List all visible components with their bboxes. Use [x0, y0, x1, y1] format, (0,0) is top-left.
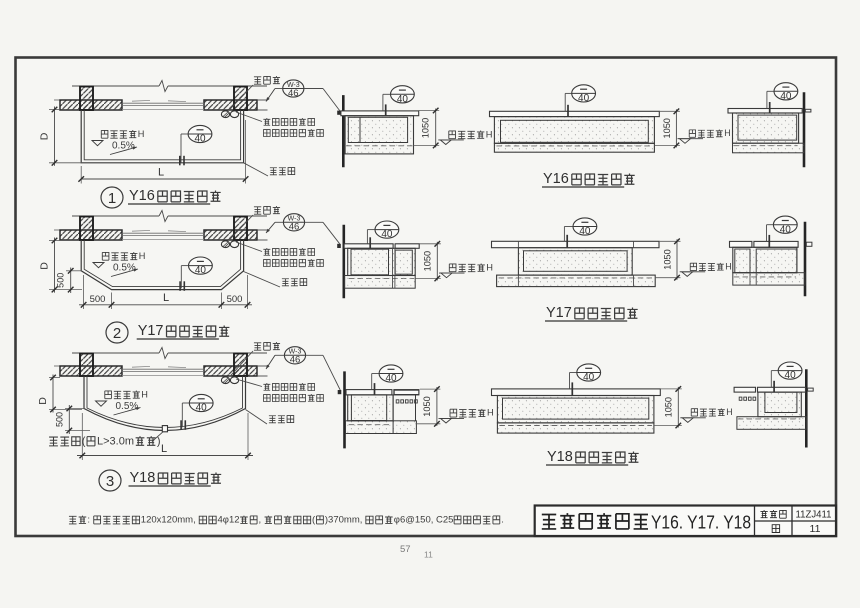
- label: embedded part (yumaijian): [254, 77, 261, 84]
- svg-text:40: 40: [381, 229, 393, 240]
- slab band extension: [733, 143, 805, 153]
- detail reference circle W-3/46: [283, 80, 304, 97]
- svg-text:D: D: [39, 132, 51, 140]
- leader from yumaijian to pier: [230, 85, 253, 109]
- slab band: [497, 423, 654, 433]
- svg-text:L>3.0m: L>3.0m: [97, 435, 134, 447]
- wall edge line: [805, 369, 808, 447]
- label: balcony floor H: [449, 131, 456, 139]
- svg-text:3: 3: [106, 473, 114, 490]
- leader from W-3 circle to side elevation embedded plate: [305, 221, 323, 223]
- label: exterior wall insulation method: [263, 248, 270, 255]
- label: exterior wall insulation method: [263, 118, 270, 125]
- slope arrow: [111, 269, 138, 277]
- svg-text:L: L: [158, 167, 164, 179]
- label: balcony floor H: [689, 130, 695, 137]
- dimension 1050 line: [675, 109, 677, 147]
- dimension D line: [54, 107, 56, 166]
- baluster dots: [396, 400, 399, 403]
- floor level marker: [680, 139, 691, 144]
- svg-text:40: 40: [578, 93, 590, 104]
- slab dashed line: [734, 276, 796, 278]
- svg-text:.: .: [501, 515, 504, 526]
- svg-text:11ZJ411: 11ZJ411: [796, 509, 832, 521]
- label: balcony floor H: [450, 409, 457, 417]
- leader to index circle 40: [181, 265, 188, 267]
- leader to structural column label: [244, 272, 280, 288]
- leader to index circle 40: [181, 133, 188, 135]
- index circle 40: [375, 221, 399, 238]
- circled number 2: [106, 322, 128, 343]
- svg-text:1050: 1050: [662, 249, 672, 269]
- slab band extension: [737, 417, 806, 430]
- label: balcony floor level H: [102, 252, 109, 260]
- label: balcony floor H: [691, 409, 697, 416]
- dimension 1050 extension lines: [660, 388, 682, 390]
- balcony door/window lines: [122, 368, 204, 370]
- leader to index circle 40: [564, 226, 573, 228]
- slab band: [497, 275, 656, 287]
- dimension D extension lines: [49, 240, 60, 242]
- svg-text:0.5%: 0.5%: [112, 141, 135, 152]
- dimension 1050 extension lines: [659, 240, 681, 242]
- svg-text:Y17: Y17: [138, 323, 164, 339]
- railing inner panel: [351, 395, 386, 421]
- index circle 40: [379, 365, 403, 382]
- railing body: [497, 396, 654, 423]
- dimension L (Y18): [81, 413, 83, 460]
- notes line: [69, 516, 77, 524]
- svg-text:Y16. Y17. Y18: Y16. Y17. Y18: [651, 512, 751, 533]
- leader + label: structural column (when L>3.0m): [152, 432, 163, 442]
- railing coping: [344, 244, 393, 249]
- leader from W-3 circle to wall end: [275, 354, 284, 356]
- dimension D line: [52, 375, 54, 413]
- slope symbol: [96, 401, 107, 406]
- svg-text:H: H: [138, 129, 145, 139]
- railing body: [733, 247, 797, 272]
- railing inner panel: [503, 398, 649, 419]
- slope symbol: [92, 141, 103, 146]
- label: structural column: [269, 416, 276, 423]
- slab band (Y18 side): [346, 421, 417, 434]
- label: structural column: [282, 279, 289, 286]
- svg-text:D: D: [37, 397, 49, 405]
- second coping segment: [394, 390, 419, 394]
- exterior wall right segment (hatched): [204, 100, 257, 110]
- index circle 40: [391, 86, 415, 103]
- index circle 40: [773, 216, 797, 233]
- svg-text:0.5%: 0.5%: [113, 263, 136, 274]
- label: embedded part (yumaijian): [254, 207, 261, 214]
- svg-text:Y18: Y18: [547, 449, 573, 465]
- embedded part circles: [221, 111, 229, 118]
- balcony door/window lines: [122, 102, 204, 104]
- wall pier right (hatched column): [234, 87, 247, 111]
- railing inner panel: [738, 115, 797, 140]
- leader from W-3 circle to side elevation embedded plate: [306, 354, 323, 356]
- index circle 40: [577, 364, 601, 381]
- wall pier left (hatched column): [80, 354, 93, 377]
- railing inner panel: [351, 249, 389, 275]
- label: balcony floor level H: [105, 391, 112, 399]
- svg-text:1050: 1050: [423, 251, 433, 271]
- Y16 balcony slab outline: [81, 110, 243, 163]
- leader to index circle 40: [182, 402, 189, 404]
- slab band: [494, 143, 654, 152]
- svg-text:40: 40: [385, 373, 397, 384]
- svg-text:4φ12: 4φ12: [218, 515, 240, 526]
- dimension 500 left (Y17): [66, 270, 82, 272]
- railing body: [345, 116, 413, 154]
- balcony door/window lines: [122, 232, 204, 234]
- fold lines: [517, 241, 519, 247]
- svg-text:1050: 1050: [664, 397, 674, 417]
- svg-text:L: L: [163, 292, 169, 304]
- railing body: [733, 113, 799, 143]
- leader from embedded circles to insulation note: [236, 112, 262, 122]
- svg-text:500: 500: [56, 273, 66, 288]
- leader to index circle 40: [372, 373, 379, 375]
- svg-text:40: 40: [194, 134, 206, 145]
- svg-text:Y16: Y16: [543, 171, 569, 187]
- svg-text:46: 46: [289, 222, 300, 233]
- svg-text:1: 1: [108, 190, 116, 207]
- label: balcony floor H: [690, 263, 696, 270]
- slab dashed line: [349, 424, 392, 426]
- svg-text:40: 40: [785, 370, 797, 381]
- svg-text:1050: 1050: [421, 118, 431, 138]
- right strip of curved rail: [392, 395, 394, 434]
- leader to index circle 40: [565, 92, 572, 94]
- svg-text:40: 40: [196, 403, 208, 414]
- svg-text:D: D: [39, 262, 51, 270]
- label: balcony floor H: [449, 264, 456, 272]
- index circle 40: [188, 125, 212, 142]
- svg-text:57: 57: [400, 544, 411, 555]
- dimension D extension lines: [49, 377, 60, 379]
- floor level marker: [682, 272, 693, 277]
- exterior wall right segment (hatched): [204, 230, 257, 240]
- svg-text:40: 40: [780, 224, 792, 235]
- svg-text:40: 40: [583, 372, 595, 383]
- floor level marker: [441, 418, 452, 423]
- dimension 1050 line: [436, 242, 438, 281]
- label: balcony floor level H: [101, 130, 108, 138]
- dimension D extension lines: [49, 109, 60, 111]
- svg-text:Y17: Y17: [546, 305, 572, 321]
- svg-text:,: ,: [259, 515, 262, 526]
- coping tab beyond wall: [806, 242, 812, 246]
- railing coping: [730, 241, 752, 247]
- Y17 balcony slab outline (bay shape): [81, 240, 243, 290]
- svg-text:46: 46: [288, 88, 299, 99]
- svg-text::: :: [87, 515, 90, 526]
- wall edge line: [803, 92, 806, 167]
- leader to index circle 40: [767, 224, 774, 226]
- page label: [772, 525, 779, 533]
- wall edge line: [342, 225, 345, 299]
- leader to index circle 40: [771, 370, 778, 372]
- center post at curved front: [162, 426, 167, 432]
- svg-text:500: 500: [55, 412, 65, 427]
- railing inner panel: [348, 117, 407, 142]
- svg-text:Y16: Y16: [129, 188, 155, 204]
- break line: [72, 352, 159, 354]
- index circle 40: [573, 218, 597, 235]
- railing inner panel: [765, 392, 797, 412]
- svg-text:φ6@150, C25: φ6@150, C25: [394, 515, 454, 526]
- svg-text:H: H: [486, 262, 493, 272]
- wall edge line: [343, 371, 346, 448]
- slab dashed line: [346, 145, 412, 147]
- svg-text:120x120mm,: 120x120mm,: [141, 515, 196, 526]
- svg-text:500: 500: [90, 294, 106, 305]
- railing coping: [490, 111, 660, 116]
- railing coping: [734, 387, 755, 392]
- slope arrow: [114, 408, 141, 416]
- slab dashed line: [496, 145, 652, 147]
- leader to index circle 40: [767, 90, 774, 92]
- railing coping: [346, 390, 392, 395]
- Y18 balcony slab outline (curved front): [84, 376, 246, 431]
- dimension 1050 extension lines: [420, 388, 441, 390]
- coping tab beyond wall: [808, 388, 814, 391]
- svg-text:11: 11: [810, 523, 821, 535]
- svg-text:)370mm,: )370mm,: [325, 515, 362, 526]
- fold lines through band: [749, 273, 751, 285]
- svg-text:H: H: [141, 390, 148, 400]
- exterior wall left segment (hatched): [60, 100, 122, 110]
- svg-text:L: L: [161, 443, 167, 455]
- railing coping: [492, 241, 660, 247]
- dimension 1050 extension lines: [419, 110, 440, 112]
- dimension 1050 line: [676, 239, 678, 279]
- slab band extension: [733, 273, 805, 285]
- svg-text:1050: 1050: [662, 118, 672, 138]
- railing body: [494, 117, 654, 144]
- wall edge line: [804, 222, 807, 297]
- svg-text:Y18: Y18: [130, 470, 156, 486]
- leader to index circle 40: [367, 229, 375, 231]
- svg-text:H: H: [726, 407, 732, 417]
- svg-text:40: 40: [780, 91, 792, 102]
- embedded part circles: [221, 377, 229, 384]
- svg-text:2: 2: [113, 325, 121, 342]
- svg-text:H: H: [487, 408, 494, 418]
- break line: [72, 85, 159, 87]
- dimension 1050 line: [435, 109, 437, 148]
- index circle 40: [189, 394, 213, 411]
- title block: [535, 506, 836, 537]
- slab dashed line: [349, 277, 415, 279]
- dimension L (Y16): [80, 166, 82, 184]
- embedded part circles: [221, 241, 229, 248]
- leader to index circle 40: [383, 93, 391, 95]
- svg-text:H: H: [724, 128, 730, 138]
- svg-text:46: 46: [290, 355, 301, 366]
- exterior wall left segment (hatched): [60, 366, 122, 376]
- floor level marker: [440, 140, 451, 145]
- leader from embedded circles to insulation note: [236, 242, 262, 252]
- second inner panel: [395, 250, 412, 274]
- leader to structural column label: [246, 410, 268, 425]
- detail reference circle W-3/46: [283, 214, 304, 231]
- dimension 1050 extension lines: [419, 243, 441, 245]
- railing body: [758, 392, 801, 417]
- circled number 3: [99, 470, 121, 491]
- slab dashed line: [738, 418, 800, 420]
- railing coping: [728, 109, 802, 114]
- dimension D line: [54, 238, 56, 293]
- circled number 1: [101, 187, 123, 208]
- railing inner panel: [524, 251, 628, 271]
- svg-text:1050: 1050: [422, 396, 432, 416]
- leader from yumaijian to pier: [230, 215, 253, 239]
- wall edge line: [342, 95, 345, 167]
- label: see individual project design: [264, 395, 271, 402]
- slope symbol: [93, 263, 104, 268]
- index circle 40: [778, 362, 802, 379]
- slab dashed line: [499, 425, 652, 427]
- coping tab beyond wall: [805, 109, 811, 112]
- leader from W-3 circle to wall end: [275, 88, 283, 90]
- break line: [72, 215, 159, 217]
- exterior wall left segment (hatched): [60, 230, 122, 240]
- dimension 1050 line: [436, 387, 438, 426]
- wall pier right (hatched column): [234, 217, 247, 241]
- panel divider: [359, 117, 361, 142]
- detail reference circle W-3/46: [284, 347, 305, 364]
- second inner panel: [735, 249, 750, 273]
- dimension 1050 extension lines: [659, 110, 680, 112]
- label: see individual project design: [264, 130, 271, 137]
- leader from yumaijian to pier: [230, 351, 253, 376]
- svg-text:11: 11: [424, 550, 433, 560]
- bottom dimensions 500 / L / 500 (Y17): [83, 275, 85, 309]
- exterior wall right segment (hatched): [204, 366, 257, 376]
- wall pier left (hatched column): [80, 217, 93, 241]
- leader from embedded circles to insulation note: [236, 379, 262, 387]
- atlas no. label: [760, 510, 767, 518]
- slab dashed line: [734, 145, 798, 147]
- index circle 40: [572, 85, 596, 102]
- floor level marker: [682, 418, 693, 423]
- label: structural column: [270, 168, 277, 175]
- svg-text:40: 40: [195, 265, 207, 276]
- label: exterior wall insulation method: [263, 383, 270, 390]
- svg-text:H: H: [139, 251, 146, 261]
- wall pier right (hatched column): [234, 354, 247, 377]
- svg-text:H: H: [486, 129, 493, 139]
- railing body: [518, 248, 632, 275]
- svg-text:0.5%: 0.5%: [116, 401, 139, 412]
- label: see individual project design: [264, 260, 271, 267]
- index circle 40: [189, 257, 213, 274]
- svg-text:H: H: [725, 261, 731, 271]
- dimension 1050 line: [677, 387, 679, 428]
- leader to index circle 40: [570, 372, 577, 374]
- dimension 500 left (Y18): [65, 408, 85, 410]
- railing coping: [341, 111, 419, 116]
- slope arrow: [110, 147, 137, 155]
- index circle 40: [774, 83, 798, 100]
- baluster dots: [739, 397, 742, 400]
- fold strip: [392, 248, 394, 288]
- svg-text:500: 500: [227, 294, 243, 305]
- title text: [542, 515, 556, 529]
- wall pier left (hatched column): [80, 87, 93, 111]
- railing inner panel: [756, 249, 797, 273]
- railing inner panel: [501, 120, 649, 142]
- leader from W-3 circle to wall end: [275, 221, 283, 223]
- drawing sheet frame: [16, 58, 837, 537]
- lower slab band: [345, 276, 416, 289]
- railing body: [348, 395, 393, 421]
- svg-text:40: 40: [397, 94, 409, 105]
- leader to structural column label: [244, 163, 268, 176]
- label: embedded part (yumaijian): [254, 343, 261, 350]
- leader from W-3 circle to side elevation embedded plate: [304, 88, 323, 90]
- slab dashed line: [499, 277, 654, 279]
- svg-text:40: 40: [579, 226, 591, 237]
- railing coping: [492, 389, 661, 396]
- floor level marker: [441, 273, 452, 278]
- railing body: [348, 248, 416, 275]
